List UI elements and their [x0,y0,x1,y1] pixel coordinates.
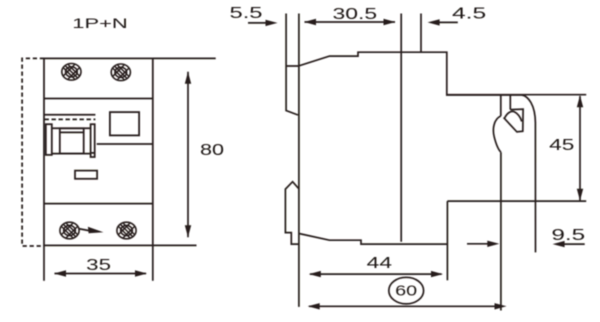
svg-text:35: 35 [86,257,111,274]
svg-text:60: 60 [395,284,417,300]
svg-text:44: 44 [367,255,392,272]
svg-text:80: 80 [200,142,224,159]
svg-text:1P+N: 1P+N [72,15,128,31]
svg-text:30.5: 30.5 [333,6,378,23]
svg-text:9.5: 9.5 [551,227,585,244]
svg-text:5.5: 5.5 [230,5,263,22]
svg-text:45: 45 [549,137,574,154]
svg-text:4.5: 4.5 [452,6,486,23]
